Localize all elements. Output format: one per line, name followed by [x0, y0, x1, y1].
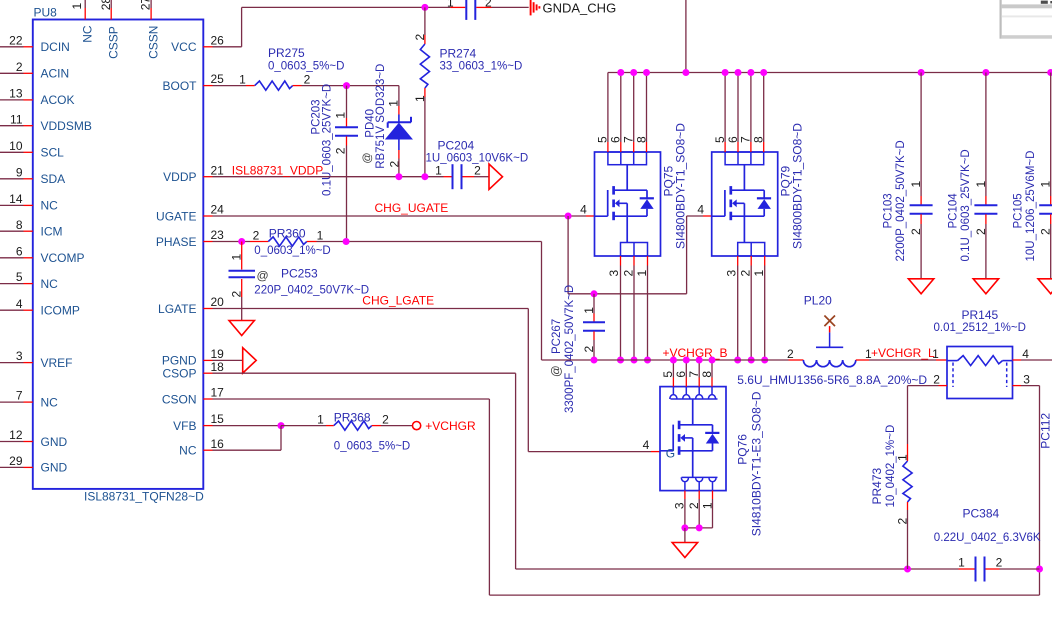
wire VDDP pin21 to PC204 [213, 176, 444, 178]
wire UGATE branch up to PQ79 gate [686, 216, 688, 294]
capacitor PC103 to ground [920, 214, 922, 224]
svg-text:VFB: VFB [173, 419, 196, 433]
wire NC pin16 loop [213, 449, 282, 451]
PQ79 pin4 stub [703, 215, 712, 217]
wire CSON down [488, 399, 490, 595]
svg-text:CHG_UGATE: CHG_UGATE [375, 201, 449, 215]
svg-text:3300PF_0402_50V7K~D: 3300PF_0402_50V7K~D [564, 285, 576, 413]
wire net to PU8 pin 8 ICM [0, 230, 24, 232]
wire top drain bus [608, 72, 1051, 74]
transistor PQ75 body outline [595, 152, 661, 256]
svg-text:GNDA_CHG: GNDA_CHG [543, 0, 617, 15]
PQ79 internal MOSFET symbol [743, 165, 745, 191]
wire PD40 anode to VDDP [398, 150, 400, 159]
svg-text:SI4800BDY-T1_SO8~D: SI4800BDY-T1_SO8~D [674, 123, 688, 249]
inductor PL20 pin2 stub [789, 359, 804, 361]
wire CSOP bottom bus to PC384 [516, 568, 959, 570]
junction riser/drain bus [682, 69, 689, 76]
wire CSOP pin18 right [213, 372, 516, 374]
svg-text:17: 17 [211, 386, 225, 400]
ground symbol under PC104 [973, 279, 998, 294]
PQ76 top pin wires to phase bus [672, 360, 674, 378]
PQ75 internal MOSFET symbol [626, 165, 628, 191]
pin 7 NC stub [24, 401, 33, 403]
pin 27 CSSN stub (top) [150, 8, 152, 20]
capacitor PC204 pin2 stub [463, 176, 475, 178]
capacitor PC204 pin1 stub [444, 176, 452, 178]
capacitor PC204 plates [452, 164, 454, 189]
resistor PR274 body [420, 44, 429, 88]
svg-text:SCL: SCL [41, 146, 65, 160]
svg-text:2: 2 [334, 147, 348, 154]
svg-text:ICM: ICM [41, 225, 63, 239]
svg-text:BOOT: BOOT [162, 79, 197, 93]
ground symbol under PQ76 [672, 543, 697, 558]
svg-text:2: 2 [996, 556, 1003, 570]
wire CSON up to PR145 sense node [1039, 569, 1041, 595]
svg-text:28: 28 [99, 0, 113, 10]
svg-text:GND: GND [41, 461, 68, 475]
IC PU8 ISL88731 charge controller body [33, 20, 204, 489]
pin 8 ICM stub [24, 230, 33, 232]
PQ76 top pin bumps [671, 398, 718, 400]
svg-text:@: @ [551, 365, 563, 377]
junction BOOT / PC203 [343, 82, 350, 89]
svg-text:VCC: VCC [171, 40, 197, 54]
svg-text:1: 1 [70, 3, 84, 10]
PU8 pin 20 LGATE stub [203, 308, 212, 310]
junction VDDP / PD40 [395, 173, 402, 180]
wire VCC riser up [241, 7, 243, 46]
svg-text:ACOK: ACOK [41, 93, 75, 107]
wire VCC top rail [242, 6, 451, 8]
resistor PR274 top wire [424, 7, 426, 35]
off-page connector PGND pin19 [213, 359, 243, 361]
capacitor PC203 top wire from BOOT junction [346, 86, 348, 118]
pin 13 ACOK stub [24, 99, 33, 101]
capacitor PC105 plates [1039, 204, 1052, 206]
pin 29 GND stub [24, 466, 33, 468]
svg-text:SI4800BDY-T1_SO8~D: SI4800BDY-T1_SO8~D [791, 123, 805, 249]
PQ76 bottom pin bumps [682, 476, 718, 478]
svg-text:9: 9 [16, 165, 23, 179]
wire PC267 bottom to +VCHGR_B bus [593, 331, 595, 340]
wire net to PU8 pin 13 ACOK [0, 99, 24, 101]
junction sense node PC384/CSON [1036, 566, 1043, 573]
wire PR360 to PHASE node [307, 241, 317, 243]
wire net to PU8 pin 9 SDA [0, 178, 24, 180]
capacitor PC103 branch from drain bus [918, 69, 925, 76]
wire PC253 bottom to ground [241, 279, 243, 297]
wire BOOT pin25 to PR275 [213, 85, 247, 87]
junction PHASE / PC203 [343, 238, 350, 245]
PQ76 internal MOSFET symbol [692, 399, 694, 425]
ground symbol under PC253 [229, 321, 254, 336]
wire net to PU8 pin 11 VDDSMB [0, 125, 24, 127]
svg-text:PC103: PC103 [883, 193, 895, 228]
svg-text:15: 15 [211, 412, 225, 426]
svg-text:NC: NC [179, 444, 197, 458]
svg-text:14: 14 [9, 192, 23, 206]
PQ75 bottom pin wires to phase bus [620, 256, 622, 266]
resistor PR368 body [334, 421, 372, 430]
ground symbol under PC105 [1038, 279, 1052, 294]
capacitor PC253 plates [229, 270, 256, 272]
svg-text:2: 2 [1039, 228, 1052, 235]
svg-text:1: 1 [1039, 181, 1052, 188]
capacitor PC384 pin1 stub [959, 568, 975, 570]
PQ75 bottom pin sub-box [621, 243, 648, 257]
svg-text:27: 27 [139, 0, 153, 10]
wire net to PU8 pin 4 ICOMP [0, 309, 24, 311]
resistor PR145 current sense pin1 stub [936, 359, 947, 361]
svg-text:3: 3 [16, 349, 23, 363]
svg-text:SI4810BDY-T1-E3_SO8~D: SI4810BDY-T1-E3_SO8~D [750, 391, 764, 536]
PU8 pin 16 NC stub [203, 449, 212, 451]
capacitor PC267 top wire [593, 294, 595, 314]
pin 3 VREF stub [24, 362, 33, 364]
wire cap to GNDA_CHG symbol [492, 6, 529, 8]
pin 1 NC stub (top) [84, 8, 86, 20]
junction CSOP / PR473 [904, 566, 911, 573]
svg-text:29: 29 [9, 454, 23, 468]
wire PR473 to CSOP bus [907, 502, 909, 510]
svg-text:1: 1 [334, 112, 348, 119]
capacitor PC203 plates [335, 126, 358, 128]
pin 9 SDA stub [24, 178, 33, 180]
svg-text:3: 3 [724, 270, 738, 277]
svg-text:10U_1206_25V6M~D: 10U_1206_25V6M~D [1025, 151, 1037, 262]
wire LGATE pin20 right [213, 308, 529, 310]
resistor PR274 bottom wire to VDDP [424, 88, 426, 97]
svg-text:PC267: PC267 [551, 319, 563, 354]
PU8 pin 24 UGATE stub [203, 215, 212, 217]
wire LGATE down [527, 309, 529, 452]
svg-text:1: 1 [317, 412, 324, 426]
svg-text:12: 12 [9, 428, 23, 442]
svg-text:CSOP: CSOP [162, 367, 196, 381]
svg-text:0.1U_0603_25V7K~D: 0.1U_0603_25V7K~D [322, 84, 334, 196]
capacitor PC384 pin2 stub [986, 568, 1000, 570]
pin 28 CSSP stub (top) [110, 8, 112, 20]
PQ76 bottom pin wires [684, 491, 686, 499]
svg-text:VDDSMB: VDDSMB [41, 119, 92, 133]
PU8 pin 15 VFB stub [203, 425, 212, 427]
svg-text:PC112: PC112 [1039, 413, 1052, 449]
svg-text:GND: GND [41, 435, 68, 449]
capacitor PC384 plates [975, 557, 977, 582]
junction PHASE / PC253 [238, 238, 245, 245]
wire net to PU8 pin 5 NC [0, 283, 24, 285]
svg-text:CHG_LGATE: CHG_LGATE [362, 294, 434, 308]
wire PR145 pin2 to PR473 [908, 385, 939, 387]
svg-text:G: G [666, 447, 675, 461]
svg-text:25: 25 [211, 72, 225, 86]
svg-text:@: @ [257, 268, 269, 282]
svg-text:1: 1 [387, 100, 401, 107]
svg-text:4: 4 [580, 203, 587, 217]
svg-text:2: 2 [382, 412, 389, 426]
wire PHASE pin23 to PR360 [213, 241, 251, 243]
svg-text:PC105: PC105 [1012, 193, 1024, 228]
wire PR145 pin3 to sense node [1021, 385, 1040, 387]
svg-text:1U_0603_10V6K~D: 1U_0603_10V6K~D [426, 153, 529, 165]
svg-text:NC: NC [41, 395, 59, 409]
resistor PR360 body [268, 237, 307, 246]
svg-text:PR275: PR275 [268, 46, 305, 60]
svg-text:ISL88731_TQFN28~D: ISL88731_TQFN28~D [84, 490, 204, 504]
off-page connector (right arrow) after PC204 [489, 164, 503, 189]
svg-text:1: 1 [447, 0, 454, 10]
wire BOOT down to PD40 cathode [398, 86, 400, 106]
capacitor PC267 plates [583, 321, 605, 323]
wire net to PU8 pin 14 NC [0, 204, 24, 206]
svg-text:33_0603_1%~D: 33_0603_1%~D [440, 61, 523, 73]
svg-text:0_0603_1%~D: 0_0603_1%~D [254, 245, 330, 257]
inductor PL20 pin1 stub [856, 359, 869, 361]
svg-text:0_0603_5%~D: 0_0603_5%~D [268, 61, 344, 73]
svg-text:LGATE: LGATE [158, 302, 196, 316]
pin 14 NC stub [24, 204, 33, 206]
svg-text:3: 3 [1023, 372, 1030, 386]
svg-text:@: @ [361, 152, 373, 163]
junction PC267 on bus [591, 357, 598, 364]
svg-text:4: 4 [16, 297, 23, 311]
wire PQ76 source join [685, 527, 713, 529]
svg-text:4: 4 [697, 203, 704, 217]
svg-text:2: 2 [253, 228, 260, 242]
svg-text:VREF: VREF [41, 356, 73, 370]
pin 5 NC stub [24, 283, 33, 285]
PQ79 bottom pin sub-box [738, 243, 765, 257]
svg-text:1: 1 [909, 181, 923, 188]
svg-text:4: 4 [643, 438, 650, 452]
svg-text:ISL88731_VDDP: ISL88731_VDDP [232, 163, 323, 177]
PU8 pin 25 BOOT stub [203, 85, 212, 87]
svg-text:1: 1 [752, 270, 766, 277]
wire PC384 pin2 to sense node [1000, 568, 1040, 570]
inductor PL20 coils [803, 360, 816, 367]
svg-text:220P_0402_50V7K~D: 220P_0402_50V7K~D [254, 285, 369, 297]
svg-text:1: 1 [896, 454, 910, 461]
capacitor C (clipped) plates [465, 0, 467, 20]
PQ76 pin4 stub [651, 451, 660, 453]
svg-text:ACIN: ACIN [41, 67, 70, 81]
svg-text:PR473: PR473 [870, 467, 884, 504]
resistor PR473 body [907, 444, 909, 461]
svg-text:1: 1 [974, 181, 988, 188]
svg-text:2200P_0402_50V7K~D: 2200P_0402_50V7K~D [895, 140, 907, 261]
junction VFB / pin16 [278, 422, 285, 429]
wire PR368 to +VCHGR terminal [372, 425, 381, 427]
pin 4 ICOMP stub [24, 309, 33, 311]
PU8 pin 26 VCC stub [203, 46, 212, 48]
svg-text:23: 23 [211, 228, 225, 242]
svg-text:2: 2 [485, 0, 492, 9]
svg-text:7: 7 [16, 389, 23, 403]
wire net to PU8 pin 27 CSSN (top) [150, 0, 152, 8]
svg-text:1: 1 [958, 556, 965, 570]
transistor PQ76 body outline [660, 387, 726, 491]
capacitor PC104 branch from drain bus [982, 69, 989, 76]
svg-text:2: 2 [304, 72, 311, 86]
svg-text:PR145: PR145 [962, 308, 999, 322]
pin 12 GND stub [24, 441, 33, 443]
wire PHASE down to +VCHGR_B bus [541, 242, 543, 361]
wire VCC pin26 to riser [213, 46, 242, 48]
PQ79 top pin wires to drain bus [724, 73, 726, 143]
svg-text:16: 16 [211, 437, 225, 451]
svg-text:22: 22 [9, 33, 23, 47]
wire net to PU8 pin 28 CSSP (top) [110, 0, 112, 8]
wire net to PU8 pin 6 VCOMP [0, 257, 24, 259]
pin 11 VDDSMB stub [24, 125, 33, 127]
svg-text:CSSP: CSSP [107, 26, 121, 59]
svg-text:NC: NC [81, 25, 95, 43]
svg-text:6: 6 [16, 244, 23, 258]
svg-text:PL20: PL20 [804, 294, 832, 308]
svg-text:1: 1 [230, 254, 244, 261]
wire VFB pin15 to PR368 [213, 425, 282, 427]
PU8 pin 21 VDDP stub [203, 176, 212, 178]
svg-text:SDA: SDA [41, 172, 66, 186]
svg-text:2: 2 [787, 347, 794, 361]
pin 10 SCL stub [24, 151, 33, 153]
svg-text:NC: NC [41, 277, 59, 291]
PU8 pin 18 CSOP stub [203, 372, 212, 374]
wire +VCHGR_B phase bus [542, 359, 789, 361]
capacitor PC105 to ground [1050, 214, 1052, 224]
svg-text:10: 10 [9, 139, 23, 153]
PQ75 top pin sub-box [608, 152, 647, 165]
open circle terminal +VCHGR [413, 422, 421, 430]
svg-text:PC204: PC204 [438, 138, 475, 152]
capacitor C (clipped at top) pin1 stub [450, 6, 465, 8]
svg-text:2: 2 [413, 34, 427, 41]
svg-text:0_0603_5%~D: 0_0603_5%~D [334, 440, 410, 452]
svg-text:24: 24 [211, 203, 225, 217]
UI overlay window fragment top-right corner [1000, 0, 1052, 39]
PU8 pin 23 PHASE stub [203, 241, 212, 243]
svg-text:PR368: PR368 [334, 411, 371, 425]
svg-text:PC253: PC253 [281, 267, 318, 281]
junction UGATE branch [565, 213, 572, 220]
PQ75 top pin wires to drain bus [607, 73, 609, 143]
wire UGATE branch down [567, 216, 569, 294]
wire net to PU8 pin 2 ACIN [0, 72, 24, 74]
wire CSON pin17 right [213, 398, 490, 400]
wire net to PU8 pin 29 GND [0, 466, 24, 468]
ground GNDA_CHG chassis symbol [530, 0, 532, 15]
svg-text:UGATE: UGATE [156, 209, 196, 223]
svg-text:PHASE: PHASE [156, 235, 197, 249]
svg-text:3: 3 [607, 270, 621, 277]
svg-text:2: 2 [933, 372, 940, 386]
wire net to PU8 pin 3 VREF [0, 362, 24, 364]
svg-text:1: 1 [239, 72, 246, 86]
svg-text:21: 21 [211, 163, 225, 177]
capacitor C (clipped) pin2 stub [476, 6, 491, 8]
PQ79 top pin sub-box [725, 152, 764, 165]
svg-text:11: 11 [10, 112, 23, 126]
svg-text:+VCHGR: +VCHGR [425, 419, 476, 433]
svg-text:10_0402_1%~D: 10_0402_1%~D [885, 425, 897, 508]
resistor PR145 pin2 stub [939, 385, 948, 387]
svg-text:1: 1 [635, 270, 649, 277]
svg-text:2: 2 [16, 60, 23, 74]
svg-text:4: 4 [1022, 347, 1029, 361]
svg-text:1: 1 [582, 307, 596, 314]
wire UGATE branch across [568, 293, 687, 295]
svg-text:5.6U_HMU1356-5R6_8.8A_20%~D: 5.6U_HMU1356-5R6_8.8A_20%~D [737, 373, 927, 387]
wire net to PU8 pin 22 DCIN [0, 46, 24, 48]
capacitor PC104 to ground [985, 214, 987, 224]
capacitor PC103 plates [910, 204, 933, 206]
transistor PQ79 body outline [712, 152, 778, 256]
inductor PL20 core symbol with no-connect X [816, 346, 843, 348]
PQ79 bottom pin wires to phase bus [737, 256, 739, 266]
svg-text:1: 1 [435, 164, 442, 178]
svg-text:VDDP: VDDP [163, 170, 196, 184]
svg-text:18: 18 [211, 360, 225, 374]
resistor PR145 pin3 stub [1013, 385, 1022, 387]
wire PC203 bottom to PHASE [346, 136, 348, 145]
svg-text:VCOMP: VCOMP [41, 251, 85, 265]
wire riser from top edge to drain bus [685, 0, 687, 73]
ground symbol under PC103 [908, 279, 933, 294]
svg-text:20: 20 [211, 295, 225, 309]
PQ75 pin4 stub [586, 215, 595, 217]
resistor PR145 body (4-terminal sense) [947, 347, 1013, 399]
svg-text:0.01_2512_1%~D: 0.01_2512_1%~D [934, 322, 1026, 334]
junction VDDP / PR274 [421, 173, 428, 180]
wire +VCHGR_L to PR145 [869, 359, 936, 361]
capacitor PC104 plates [974, 204, 997, 206]
capacitor PC253 top wire [241, 242, 243, 270]
svg-text:5: 5 [16, 270, 23, 284]
resistor PR275 body [255, 81, 293, 90]
PU8 pin 17 CSON stub [203, 398, 212, 400]
wire net to PU8 pin 7 NC [0, 401, 24, 403]
svg-text:2: 2 [474, 164, 481, 178]
wire PR275 to BOOT node [293, 85, 302, 87]
svg-text:PU8: PU8 [34, 6, 58, 20]
svg-text:PR274: PR274 [440, 47, 477, 61]
svg-text:CSSN: CSSN [146, 26, 160, 59]
pin 2 ACIN stub [24, 72, 33, 74]
svg-text:8: 8 [16, 218, 23, 232]
wire net to PU8 pin 1 NC (top) [84, 0, 86, 8]
svg-text:1: 1 [317, 228, 324, 242]
resistor PR145 pin4 stub to right edge [1013, 359, 1022, 361]
junction VCC rail / PR274 [421, 4, 428, 11]
wire PQ76 source to ground [684, 528, 686, 543]
svg-text:NC: NC [41, 199, 59, 213]
svg-text:13: 13 [9, 87, 23, 101]
wire net to PU8 pin 10 SCL [0, 151, 24, 153]
svg-text:0.22U_0402_6.3V6K: 0.22U_0402_6.3V6K [934, 532, 1041, 544]
capacitor PC105 branch from drain bus [1047, 69, 1052, 76]
wire net to PU8 pin 12 GND [0, 441, 24, 443]
svg-text:26: 26 [211, 33, 225, 47]
svg-text:PQ76: PQ76 [736, 434, 750, 465]
svg-text:1: 1 [932, 347, 939, 361]
svg-text:DCIN: DCIN [41, 40, 70, 54]
wire CSON bottom bus [489, 594, 1039, 596]
svg-text:PC104: PC104 [948, 193, 960, 229]
svg-text:CSON: CSON [162, 392, 197, 406]
wire UGATE pin24 to PQ75 gate [213, 215, 587, 217]
